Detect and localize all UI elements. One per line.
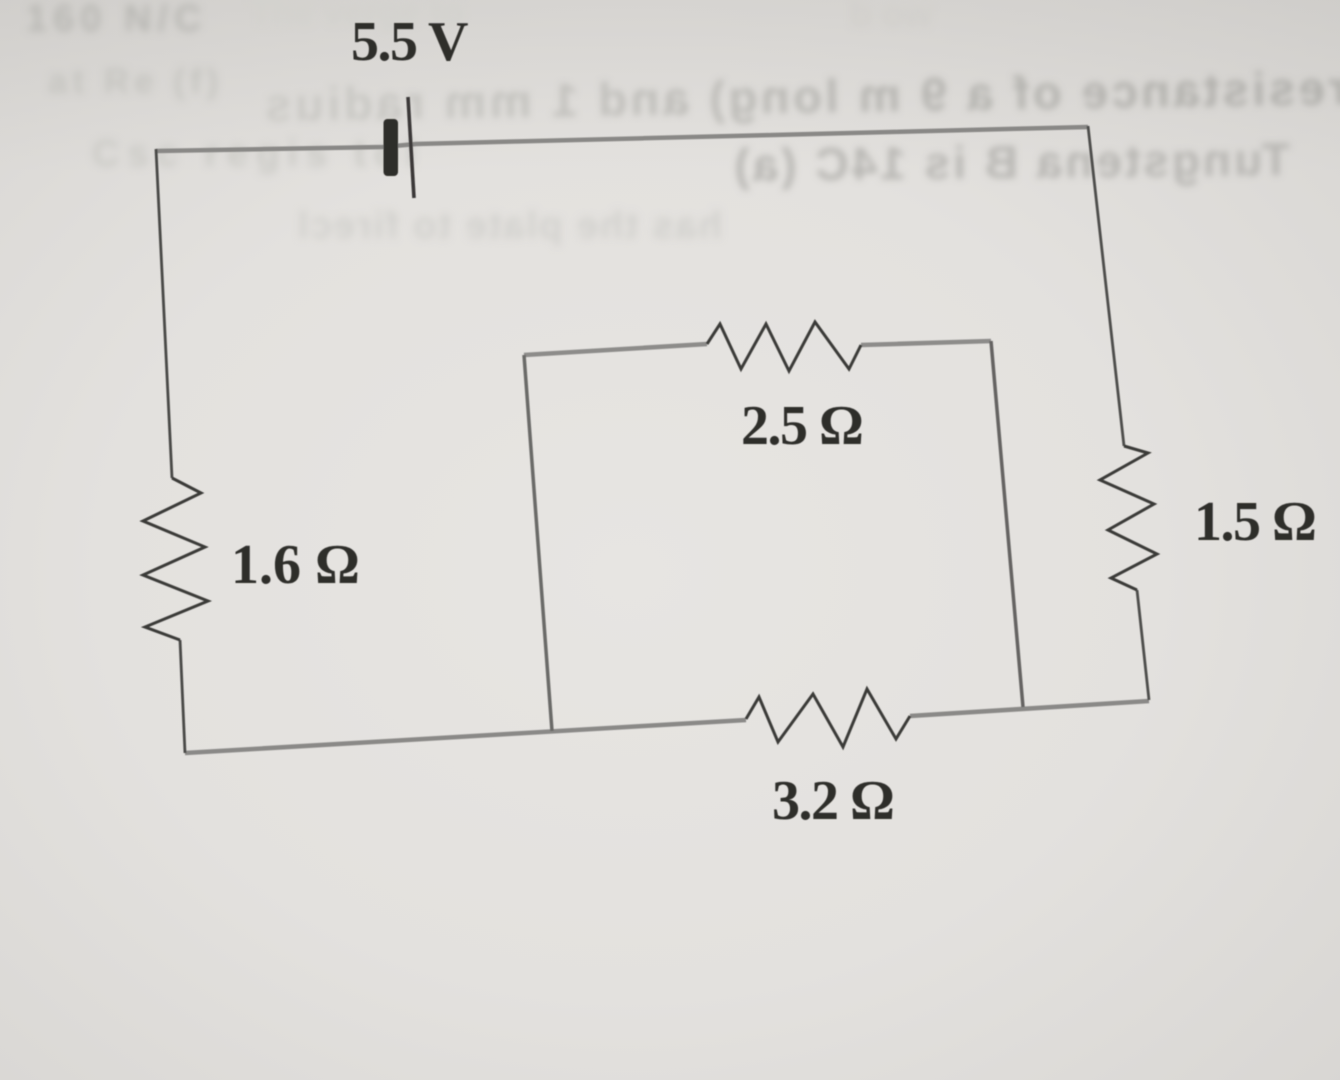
svg-text:160 N/C: 160 N/C [26,0,207,40]
battery V1 negative plate (short thick bar) [384,119,399,176]
wire: inner loop top left segment [524,344,707,355]
battery V1 positive plate (long thin bar) [408,97,414,198]
svg-text:1.6 Ω: 1.6 Ω [231,534,360,596]
svg-text:b ow: b ow [850,0,933,34]
resistor 1.5 ohm (right) [1100,446,1157,590]
wire: inner loop top right segment [861,341,991,345]
svg-text:3.2 Ω: 3.2 Ω [772,770,893,832]
svg-text:at Re (f): at Re (f) [48,62,223,101]
wire: outer right vertical upper [1088,126,1124,446]
resistor 3.2 ohm (bottom) [746,689,910,747]
wire: outer right vertical lower [1137,590,1149,700]
resistor 2.5 ohm (inner top) [707,322,861,371]
bleed-through (back of page) faint text [26,0,1340,247]
wire: bottom right segment [910,701,1149,716]
resistor 1.6 ohm (left) [143,478,208,640]
svg-text:Tungstena B is 14C (a): Tungstena B is 14C (a) [731,133,1290,191]
wire: outer left vertical upper [156,149,172,478]
wire: top (battery loop) [156,127,1088,151]
wire: inner loop right vertical [991,341,1023,707]
wire: outer left vertical lower [180,640,185,753]
svg-text:Csc regis tol: Csc regis tol [92,133,424,175]
svg-text:1.5 Ω: 1.5 Ω [1194,491,1315,553]
svg-text:5.5 V: 5.5 V [351,11,468,73]
svg-text:has the plate to firecl: has the plate to firecl [296,205,722,247]
svg-text:2.5 Ω: 2.5 Ω [741,395,862,457]
wire: bottom left segment [185,720,746,753]
wire: inner loop left vertical [524,355,552,731]
